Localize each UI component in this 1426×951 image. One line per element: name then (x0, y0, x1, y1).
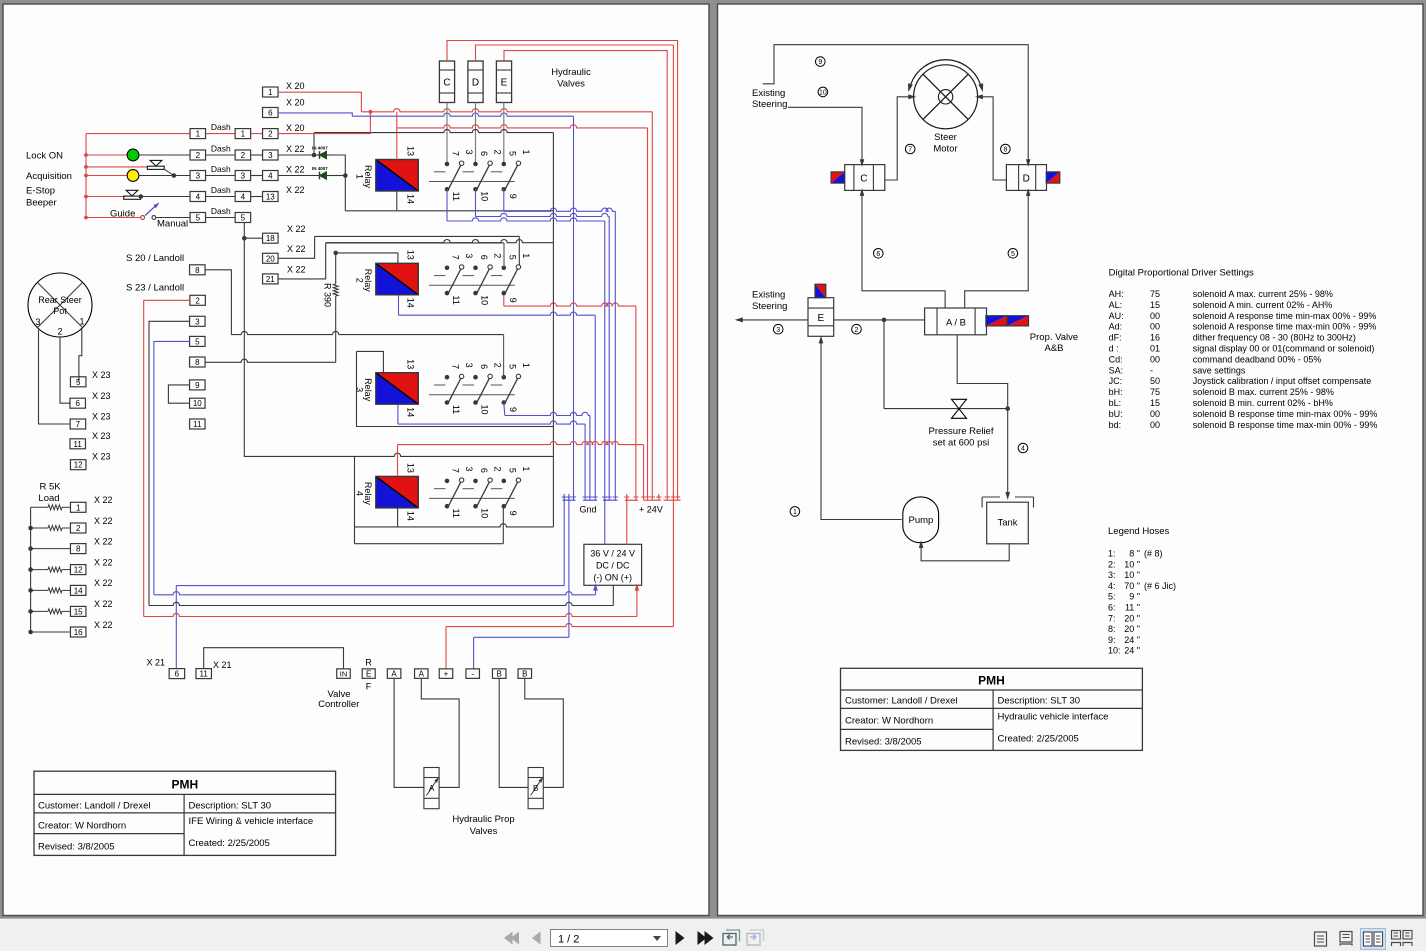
svg-text:11: 11 (451, 295, 461, 304)
wire X21-11 to valve controller IN (204, 648, 344, 669)
dash row 5 (190, 213, 206, 223)
svg-text:10 ": 10 " (1124, 570, 1140, 580)
svg-text:11: 11 (451, 192, 461, 201)
svg-text:13: 13 (406, 359, 416, 369)
wire E to A/B (834, 319, 925, 321)
node 9 (816, 57, 826, 67)
svg-text:D: D (472, 78, 479, 89)
svg-text:X 23: X 23 (92, 452, 111, 462)
wire X20 box1 to red bus (263, 87, 279, 97)
svg-text:X 22: X 22 (94, 516, 113, 526)
terminal minus (466, 669, 480, 679)
svg-text:JC:: JC: (1109, 376, 1123, 386)
svg-text:6: 6 (479, 468, 489, 473)
svg-text:14: 14 (406, 511, 416, 521)
svg-text:solenoid B response time max-m: solenoid B response time max-min 00% - 9… (1193, 420, 1378, 430)
relay K4 coil feed red (398, 441, 644, 444)
svg-text:Created: 2/25/2005: Created: 2/25/2005 (189, 838, 270, 849)
svg-text:Created: 2/25/2005: Created: 2/25/2005 (998, 734, 1079, 745)
valve D hydraulic (1006, 165, 1046, 191)
valve C solenoid (831, 172, 845, 183)
svg-text:C: C (860, 174, 867, 185)
svg-text:6: 6 (479, 364, 489, 369)
svg-text:5: 5 (507, 255, 517, 260)
buzzer symbol Acquisition (86, 166, 147, 168)
svg-text:00: 00 (1150, 354, 1160, 364)
svg-text:2:: 2: (1108, 559, 1116, 569)
svg-text:X 20: X 20 (286, 98, 305, 108)
view dual continuous icon (1392, 931, 1413, 947)
svg-text:1: 1 (241, 130, 246, 139)
svg-text:Description: SLT 30: Description: SLT 30 (189, 801, 272, 812)
svg-text:4:: 4: (1108, 581, 1116, 591)
svg-text:A: A (419, 670, 425, 679)
svg-text:+ 24V: + 24V (639, 505, 663, 515)
svg-text:dF:: dF: (1109, 333, 1122, 343)
svg-text:1: 1 (521, 363, 531, 368)
svg-text:Gnd: Gnd (579, 505, 596, 515)
svg-text:(# 6 Jic): (# 6 Jic) (1144, 581, 1176, 591)
wire A1 to valve A (394, 678, 424, 787)
svg-text:Beeper: Beeper (26, 198, 57, 209)
svg-text:1:: 1: (1108, 549, 1116, 559)
svg-text:X 23: X 23 (92, 431, 111, 441)
dash row 3 (190, 171, 206, 181)
toolbar (0, 919, 1426, 951)
svg-text:Dash: Dash (211, 185, 231, 195)
wire valve E contact column (503, 103, 505, 165)
svg-text:5: 5 (195, 337, 200, 346)
svg-text:2: 2 (76, 524, 81, 533)
svg-text:2: 2 (493, 253, 503, 258)
svg-text:Valves: Valves (470, 826, 498, 837)
svg-text:11: 11 (451, 509, 461, 518)
svg-text:01: 01 (1150, 344, 1160, 354)
potentiometer Rear Steer Pot (28, 273, 92, 337)
svg-text:R 390: R 390 (323, 283, 333, 307)
svg-text:20: 20 (266, 254, 275, 263)
relay K3 boundary (357, 351, 554, 426)
svg-text:75: 75 (1150, 387, 1160, 397)
svg-text:SA:: SA: (1109, 365, 1124, 375)
svg-text:X 20: X 20 (286, 81, 305, 91)
wire pot pin2 (60, 337, 70, 403)
svg-text:3: 3 (464, 363, 474, 368)
svg-text:PMH: PMH (171, 778, 198, 792)
svg-text:X 22: X 22 (94, 557, 113, 567)
svg-text:X 21: X 21 (147, 658, 166, 668)
svg-text:Digital Proportional Driver Se: Digital Proportional Driver Settings (1109, 268, 1254, 279)
svg-text:Rear Steer: Rear Steer (38, 295, 82, 305)
svg-text:Creator: W Nordhorn: Creator: W Nordhorn (845, 716, 933, 727)
svg-text:d :: d : (1109, 344, 1119, 354)
svg-text:6: 6 (175, 670, 180, 679)
wire black bus to DCDC (149, 602, 613, 605)
dash row 4 (190, 192, 206, 202)
terminal S23-10 (190, 398, 206, 408)
right page (718, 4, 1424, 916)
svg-text:16: 16 (74, 628, 83, 637)
svg-text:-: - (1150, 365, 1153, 375)
wire pot pin1 (79, 329, 82, 382)
svg-text:4: 4 (196, 193, 201, 202)
button previous page (disabled) (532, 932, 541, 945)
svg-text:10: 10 (480, 191, 490, 201)
svg-text:75: 75 (1150, 289, 1160, 299)
svg-text:1: 1 (76, 503, 81, 512)
svg-text:X 22: X 22 (94, 495, 113, 505)
svg-text:15: 15 (74, 607, 83, 616)
svg-text:Hydraulic vehicle interface: Hydraulic vehicle interface (998, 712, 1109, 723)
wire valve C +24V feed (447, 41, 678, 495)
svg-text:8: 8 (1003, 147, 1007, 154)
terminal S23-9 (190, 380, 206, 390)
svg-text:2: 2 (196, 151, 201, 160)
terminal X22-18 (263, 233, 279, 243)
svg-text:-: - (471, 670, 474, 679)
wire red bus to DCDC plus (144, 613, 637, 616)
svg-text:36 V / 24 V: 36 V / 24 V (590, 549, 635, 559)
svg-text:20 ": 20 " (1124, 613, 1140, 623)
svg-text:10: 10 (480, 508, 490, 518)
svg-text:4: 4 (355, 491, 365, 496)
svg-text:11: 11 (451, 405, 461, 414)
terminal A1 (387, 669, 401, 679)
svg-text:6:: 6: (1108, 603, 1116, 613)
svg-text:E: E (501, 78, 508, 89)
svg-text:A: A (429, 784, 435, 793)
wire valve D +24V feed (476, 45, 674, 61)
svg-text:Dash: Dash (211, 164, 231, 174)
relay K3 (376, 373, 419, 405)
wire relay2 pin9 red return (503, 293, 505, 306)
svg-text:solenoid A response time max-m: solenoid A response time max-min 00% - 9… (1193, 322, 1377, 332)
svg-text:IN 4007: IN 4007 (312, 146, 328, 151)
svg-text:AH:: AH: (1109, 289, 1124, 299)
svg-text:2: 2 (195, 296, 200, 305)
wire jumper 9-10 (168, 385, 189, 403)
wire S20-8 to relay K3 pin5 (503, 335, 505, 378)
terminal IN (337, 669, 351, 679)
svg-text:4: 4 (268, 172, 273, 181)
prop valve A/B solenoid stripes (986, 316, 1007, 326)
svg-text:B: B (497, 670, 502, 679)
svg-text:5: 5 (196, 214, 201, 223)
terminal X22-21 (263, 274, 279, 284)
svg-text:9 ": 9 " (1129, 592, 1140, 602)
wire valve E +24V feed (504, 51, 667, 494)
relay K1 coil wires (396, 112, 398, 160)
svg-text:9: 9 (508, 511, 518, 516)
svg-text:12: 12 (74, 461, 83, 470)
node 2 (852, 324, 862, 334)
svg-text:Acquisition: Acquisition (26, 171, 72, 182)
wire pump to valve E (821, 341, 902, 520)
tank T1 (987, 502, 1029, 544)
terminal X23-11 (70, 439, 86, 449)
svg-text:2: 2 (57, 327, 62, 337)
node 10 (818, 87, 828, 97)
wire box21 to relay K2 pin5 (326, 242, 504, 244)
svg-text:6: 6 (75, 399, 80, 408)
svg-text:14: 14 (406, 194, 416, 204)
terminal X21-6 (169, 669, 185, 679)
svg-text:bH:: bH: (1109, 387, 1123, 397)
svg-text:15: 15 (1150, 300, 1160, 310)
svg-text:(# 8): (# 8) (1144, 549, 1163, 559)
pressure relief valve (883, 320, 885, 409)
left page (3, 4, 709, 916)
terminal S23-2 (190, 295, 206, 305)
switch Guide Manual (86, 217, 141, 219)
node red supply bus left (85, 134, 87, 218)
svg-text:1: 1 (196, 130, 201, 139)
wire X20 box6 blue bus (263, 108, 279, 118)
svg-text:X 23: X 23 (92, 391, 111, 401)
terminal E REF (362, 669, 375, 679)
terminal S23-3 (190, 316, 206, 326)
wire A2 to valve A (421, 678, 459, 787)
svg-text:3: 3 (241, 172, 246, 181)
valve E solenoid (815, 284, 826, 298)
svg-text:5: 5 (1011, 251, 1015, 258)
svg-text:IFE Wiring & vehicle interface: IFE Wiring & vehicle interface (189, 816, 314, 827)
svg-text:solenoid B min. current 02% -: solenoid B min. current 02% - bH% (1193, 398, 1333, 408)
svg-text:5: 5 (76, 378, 81, 387)
svg-text:X 22: X 22 (94, 599, 113, 609)
node 6 (874, 249, 884, 259)
svg-text:Dash: Dash (211, 206, 231, 216)
svg-text:IN: IN (340, 670, 348, 679)
title block PMH left (34, 771, 336, 855)
svg-text:X 23: X 23 (92, 370, 111, 380)
svg-text:Hydraulic Prop: Hydraulic Prop (452, 814, 514, 825)
view single page icon (1315, 932, 1327, 946)
svg-text:5: 5 (507, 364, 517, 369)
svg-text:14: 14 (406, 407, 416, 417)
svg-text:3: 3 (464, 466, 474, 471)
relay K2 coil feed (336, 253, 398, 263)
svg-text:X 22: X 22 (94, 536, 113, 546)
prop valve A/B (925, 308, 987, 335)
svg-text:X 22: X 22 (287, 264, 306, 274)
prop valve A (424, 768, 439, 809)
svg-text:7: 7 (908, 147, 912, 154)
svg-text:Tank: Tank (997, 518, 1017, 529)
hydraulic valve D (468, 61, 483, 103)
svg-text:solenoid A max. current 25% -: solenoid A max. current 25% - 98% (1193, 289, 1333, 299)
svg-text:8:: 8: (1108, 624, 1116, 634)
svg-text:AU:: AU: (1109, 311, 1124, 321)
wire red bus y111 (361, 109, 652, 112)
node 3 (773, 324, 783, 334)
svg-text:DC / DC: DC / DC (596, 561, 630, 571)
svg-text:3: 3 (464, 149, 474, 154)
svg-text:13: 13 (406, 250, 416, 260)
hydraulic valve E (496, 61, 511, 103)
relay K3 coil return blue (397, 405, 399, 424)
svg-text:3: 3 (195, 317, 200, 326)
relay K3 coil feed (357, 351, 384, 372)
svg-text:command deadband 00% - 05%: command deadband 00% - 05% (1193, 354, 1322, 364)
terminal X22-20 (263, 253, 279, 263)
svg-text:24 ": 24 " (1124, 635, 1140, 645)
svg-text:Prop. Valve: Prop. Valve (1030, 332, 1078, 343)
svg-text:X 22: X 22 (287, 224, 306, 234)
wire blue bus X21-6 (176, 585, 564, 587)
svg-text:5: 5 (507, 151, 517, 156)
svg-text:10: 10 (480, 404, 490, 414)
svg-text:9: 9 (818, 59, 822, 66)
svg-text:(-) ON (+): (-) ON (+) (593, 573, 632, 583)
svg-text:9: 9 (508, 407, 518, 412)
wire dash5 down to X22-18 (244, 223, 354, 457)
svg-text:18: 18 (266, 234, 275, 243)
svg-text:6: 6 (876, 251, 880, 258)
svg-text:10: 10 (193, 399, 202, 408)
relay K4 boundary (355, 453, 554, 456)
wire E to existing steering (740, 319, 809, 321)
wire A/B to valve C (862, 193, 945, 309)
svg-text:3: 3 (35, 317, 40, 327)
relay K2 coil return blue (398, 295, 400, 315)
wire B1 to valve B (499, 678, 528, 787)
wire red bus +24 to plus terminal (446, 623, 673, 626)
svg-text:11: 11 (200, 670, 209, 679)
svg-text:solenoid B response time min-m: solenoid B response time min-max 00% - 9… (1193, 409, 1378, 419)
relay K2 (376, 263, 419, 295)
view continuous icon (1340, 932, 1352, 946)
svg-text:7: 7 (451, 151, 461, 156)
wire existing steering 9 to valve D top (763, 45, 1029, 161)
svg-text:20 ": 20 " (1124, 624, 1140, 634)
svg-text:10: 10 (480, 295, 490, 305)
svg-text:X 22: X 22 (94, 620, 113, 630)
svg-text:S 20 / Landoll: S 20 / Landoll (126, 253, 184, 264)
page number box 1 / 2 (551, 930, 668, 947)
wire tank to pump (921, 543, 1009, 561)
svg-text:Controller: Controller (318, 699, 359, 710)
terminal B2 (518, 669, 532, 679)
svg-text:Revised: 3/8/2005: Revised: 3/8/2005 (845, 737, 922, 748)
svg-text:Existing: Existing (752, 88, 785, 99)
svg-text:1: 1 (521, 253, 531, 258)
terminal X23-7 (70, 419, 86, 429)
svg-text:solenoid A min. current 02% -: solenoid A min. current 02% - AH% (1193, 300, 1333, 310)
svg-text:Steering: Steering (752, 301, 787, 312)
svg-text:bL:: bL: (1109, 398, 1122, 408)
view dual page icon (active) (1361, 929, 1386, 950)
button next page (676, 931, 685, 945)
svg-text:E-Stop: E-Stop (26, 186, 55, 197)
svg-text:Steering: Steering (752, 99, 787, 110)
svg-text:6: 6 (268, 109, 273, 118)
svg-text:PMH: PMH (978, 674, 1005, 688)
terminal S23-11 (190, 419, 206, 429)
wire blue bus to DCDC minus (154, 592, 596, 595)
svg-text:Creator: W Nordhorn: Creator: W Nordhorn (38, 821, 126, 832)
svg-text:F: F (366, 682, 372, 692)
svg-text:5: 5 (507, 468, 517, 473)
svg-text:11: 11 (74, 440, 83, 449)
svg-text:A: A (391, 670, 397, 679)
lamp green Lock ON (86, 154, 127, 156)
svg-text:8: 8 (195, 266, 200, 275)
svg-text:14: 14 (74, 586, 83, 595)
wire existing steering 10 to valve C top (788, 107, 862, 160)
svg-text:9: 9 (195, 381, 200, 390)
node 1 (790, 507, 800, 517)
svg-text:9: 9 (508, 298, 518, 303)
svg-text:E: E (366, 670, 371, 679)
svg-text:1: 1 (268, 88, 273, 97)
svg-text:4: 4 (1021, 446, 1025, 453)
svg-text:Steer: Steer (934, 132, 957, 143)
svg-text:13: 13 (266, 193, 275, 202)
svg-text:5:: 5: (1108, 592, 1116, 602)
svg-text:B: B (533, 784, 538, 793)
svg-text:Cd:: Cd: (1109, 354, 1123, 364)
svg-text:9: 9 (508, 194, 518, 199)
svg-text:00: 00 (1150, 409, 1160, 419)
svg-text:Customer: Landoll / Drexel: Customer: Landoll / Drexel (38, 801, 150, 812)
svg-text:solenoid A response time min-m: solenoid A response time min-max 00% - 9… (1193, 311, 1377, 321)
svg-text:1 / 2: 1 / 2 (558, 934, 579, 946)
svg-text:8: 8 (195, 358, 200, 367)
steer motor rotation arc (911, 60, 981, 84)
svg-text:bU:: bU: (1109, 409, 1123, 419)
node 8 (1001, 144, 1011, 154)
prop valve B (528, 768, 543, 809)
svg-text:6: 6 (479, 255, 489, 260)
svg-text:Pump: Pump (908, 515, 933, 526)
steer motor M1 (914, 65, 978, 129)
relay K1 contact output wires blue (446, 189, 448, 221)
terminal X23-5 (70, 377, 86, 387)
svg-text:Pressure Relief: Pressure Relief (929, 426, 994, 437)
terminal S20-8 (190, 265, 206, 275)
svg-text:IN 4007: IN 4007 (312, 166, 328, 171)
svg-text:Dash: Dash (211, 122, 231, 132)
wire valve C to motor (885, 97, 910, 180)
svg-text:Hydraulic: Hydraulic (551, 67, 591, 78)
relay K4 (376, 476, 419, 508)
svg-text:14: 14 (406, 298, 416, 308)
svg-text:5: 5 (241, 214, 246, 223)
svg-text:Existing: Existing (752, 290, 785, 301)
svg-text:set at 600 psi: set at 600 psi (933, 438, 990, 449)
ground bus Gnd (563, 499, 576, 501)
wire box20 to relay K2 pin1 (315, 235, 520, 237)
svg-text:Legend Hoses: Legend Hoses (1108, 526, 1170, 537)
svg-text:15: 15 (1150, 398, 1160, 408)
svg-text:X 20: X 20 (286, 123, 305, 133)
wire blue minus terminal to ground (474, 636, 569, 638)
svg-text:X 22: X 22 (286, 165, 305, 175)
valve E hydraulic (808, 298, 834, 337)
terminal S23-5 (190, 336, 206, 346)
node 7 (905, 144, 915, 154)
wire comb to DC-DC top red (626, 497, 628, 544)
wire valve C contact column (446, 103, 448, 165)
svg-text:AL:: AL: (1109, 300, 1123, 310)
terminal B1 (492, 669, 506, 679)
svg-text:X 22: X 22 (94, 578, 113, 588)
wire B2 to valve B (525, 678, 564, 787)
dash row 2 (190, 150, 206, 160)
relay K1 boundary (313, 133, 315, 155)
svg-text:signal display 00 or 01(comman: signal display 00 or 01(command or solen… (1193, 344, 1375, 354)
